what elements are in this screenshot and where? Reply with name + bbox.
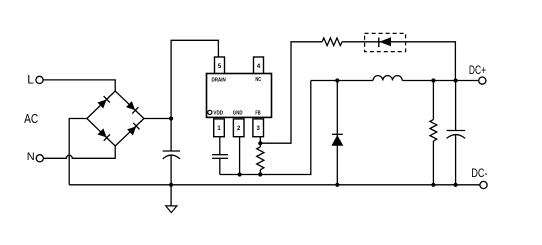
svg-text:AC: AC xyxy=(24,111,38,126)
svg-text:NC: NC xyxy=(255,77,261,83)
svg-text:DC+: DC+ xyxy=(469,63,486,77)
svg-text:L: L xyxy=(27,73,34,87)
svg-text:VDD: VDD xyxy=(213,111,223,117)
svg-text:DRAIN: DRAIN xyxy=(212,78,226,84)
svg-text:N: N xyxy=(27,151,35,163)
svg-text:GND: GND xyxy=(233,111,243,117)
svg-text:FB: FB xyxy=(255,111,260,117)
svg-text:DC-: DC- xyxy=(471,166,487,180)
